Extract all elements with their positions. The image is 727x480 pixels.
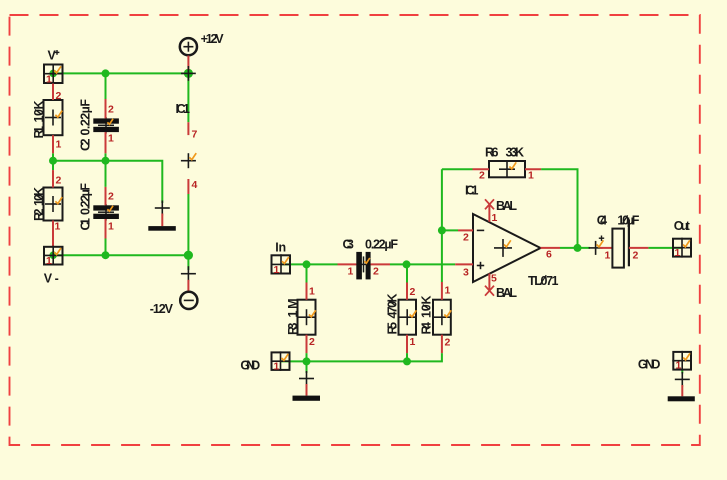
svg-text:GND: GND (638, 357, 661, 371)
svg-text:10K: 10K (32, 101, 46, 123)
wire GND right terminal stub (681, 370, 683, 374)
resistor R5 (399, 283, 417, 354)
svg-text:IC1: IC1 (465, 183, 479, 197)
ground symbol left (rail splitter) (148, 201, 176, 231)
svg-text:Out: Out (674, 219, 691, 233)
terminal GND left (271, 351, 291, 372)
op-amp pin 6 output stub (541, 247, 561, 249)
svg-text:4: 4 (192, 179, 198, 191)
wire R5 bottom to GND row (406, 353, 408, 361)
svg-text:C2: C2 (79, 138, 93, 151)
svg-text:R4: R4 (420, 322, 434, 335)
wire In to C3 (281, 263, 338, 265)
wire IC1 pin4 to row3 (187, 194, 189, 255)
wire R3 top (306, 264, 308, 282)
resistor R6 (473, 161, 542, 182)
svg-text:1: 1 (410, 336, 416, 348)
svg-text:2: 2 (479, 170, 485, 182)
wire mid rail row2 (53, 161, 162, 203)
svg-text:2: 2 (373, 266, 379, 278)
op-amp minus mark (477, 229, 484, 231)
wire supply column V+ to IC1 pin7 (187, 73, 189, 122)
svg-text:470K: 470K (386, 294, 400, 319)
svg-text:-12V: -12V (150, 302, 174, 316)
svg-text:2: 2 (56, 175, 62, 187)
wire V- rail row3 (53, 254, 188, 256)
resistor R4 (433, 282, 451, 353)
supply +12V (180, 38, 197, 81)
svg-text:GND: GND (240, 358, 260, 372)
svg-text:2: 2 (445, 337, 451, 349)
svg-text:2: 2 (56, 90, 62, 102)
terminal Out (672, 238, 692, 259)
svg-text:1: 1 (676, 360, 682, 372)
junction V+ terminal (49, 70, 57, 78)
svg-text:1: 1 (274, 264, 280, 276)
wire row3 to -12V supply (187, 255, 189, 270)
svg-text:1: 1 (445, 285, 451, 297)
junction row1 supply (184, 69, 193, 78)
wire GND row bottom (281, 353, 442, 361)
svg-text:1: 1 (274, 361, 280, 373)
svg-text:2: 2 (108, 104, 114, 116)
IC1 power pins (181, 122, 198, 194)
svg-text:R2: R2 (32, 208, 46, 221)
svg-text:V: V (48, 48, 57, 62)
junction V- terminal (49, 251, 57, 259)
svg-text:2: 2 (108, 191, 114, 203)
wire C2 bottom to row2 (105, 153, 107, 160)
svg-text:1: 1 (56, 139, 62, 151)
svg-text:1: 1 (46, 74, 52, 86)
capacitor C4 (589, 219, 649, 267)
resistor R3 (298, 283, 316, 354)
junction output node (574, 244, 582, 252)
op-amp pin 3 non-inverting stub (455, 263, 473, 265)
svg-text:0.22µF: 0.22µF (79, 99, 93, 136)
wire R6 right to output riser (541, 169, 577, 248)
svg-text:1: 1 (108, 133, 114, 145)
op-amp pin 5 BAL (488, 274, 490, 291)
op-amp IC1 TL071 (455, 199, 560, 295)
svg-text:BAL: BAL (496, 199, 517, 213)
svg-text:0.22µF: 0.22µF (365, 237, 398, 251)
resistor R1 (44, 84, 63, 154)
svg-text:R6: R6 (485, 145, 499, 159)
svg-text:IC1: IC1 (176, 102, 191, 116)
svg-text:1M: 1M (286, 299, 300, 318)
svg-text:C3: C3 (343, 237, 354, 251)
wire R1 bottom to row2 (52, 153, 54, 160)
svg-text:1: 1 (492, 212, 498, 224)
junction feedback node (438, 226, 446, 234)
resistor R2 (44, 170, 63, 247)
svg-text:R3: R3 (286, 322, 300, 335)
svg-text:1: 1 (46, 255, 52, 267)
wire opamp pin6 to output node (560, 247, 590, 249)
op-amp pin 2 inverting stub (458, 229, 473, 231)
svg-text:C4: C4 (597, 213, 607, 227)
capacitor C2 (93, 99, 119, 153)
capacitor C3 (338, 252, 391, 280)
svg-text:1: 1 (605, 250, 611, 262)
wire C3 to opamp pin3 (390, 263, 455, 265)
junction row2 colB (102, 157, 110, 165)
svg-text:C1: C1 (79, 218, 93, 231)
wire C2 top drop (105, 73, 107, 99)
svg-text:BAL: BAL (496, 286, 517, 300)
wire C1 bottom to row3 (105, 239, 107, 256)
terminal GND right (672, 351, 692, 372)
svg-text:2: 2 (410, 286, 416, 298)
svg-text:R5: R5 (386, 322, 400, 335)
wire R3 bottom to GND row (306, 353, 308, 361)
svg-text:3: 3 (463, 267, 469, 279)
wire C4 to Out terminal (648, 247, 682, 249)
op-amp origin cross (494, 247, 512, 249)
svg-text:1: 1 (55, 221, 61, 233)
svg-text:1: 1 (108, 221, 114, 233)
wire feedback node to R4 top (441, 169, 443, 282)
op-amp pin 1 BAL (488, 204, 490, 222)
wire R5 top (406, 264, 408, 282)
junction GND row R3 (303, 357, 311, 365)
svg-text:1: 1 (675, 247, 681, 259)
svg-text:V -: V - (44, 272, 59, 286)
terminal V- (43, 246, 64, 267)
svg-text:5: 5 (491, 273, 497, 285)
svg-text:33K: 33K (506, 145, 525, 159)
junction In/R3 node (303, 260, 311, 268)
svg-text:6: 6 (546, 249, 552, 261)
wire opamp pin2 from feedback node (442, 229, 458, 231)
junction row2 colA (49, 157, 57, 165)
svg-text:R1: R1 (32, 126, 46, 139)
junction C3/R5 node (403, 260, 411, 268)
junction row3 colB (102, 251, 110, 259)
svg-text:10µF: 10µF (617, 213, 639, 227)
svg-text:2: 2 (309, 336, 315, 348)
op-amp plus mark (477, 265, 484, 267)
svg-text:2: 2 (633, 250, 639, 262)
wire C1 top from row2 (105, 161, 107, 187)
terminal In (271, 254, 292, 276)
wire R2 top from row2 (52, 161, 54, 170)
svg-text:1: 1 (528, 170, 534, 182)
svg-text:1: 1 (348, 266, 354, 278)
wire V+ rail row1 (53, 72, 188, 74)
ground symbol right (668, 372, 695, 401)
svg-text:+12V: +12V (201, 32, 225, 46)
junction GND row R5 (403, 357, 411, 365)
svg-text:In: In (275, 241, 286, 255)
supply -12V (180, 266, 197, 309)
junction row1 colB (102, 69, 110, 77)
terminal V+ (43, 64, 64, 86)
svg-text:0.22µF: 0.22µF (79, 183, 93, 215)
wire R6 left to feedback node (442, 168, 473, 170)
svg-text:2: 2 (463, 232, 469, 244)
ground symbol mid (293, 371, 321, 401)
svg-text:1: 1 (309, 286, 315, 298)
wire GND row to ground symbol (306, 361, 308, 373)
junction row3 supply (184, 251, 193, 260)
capacitor C1 (93, 187, 119, 239)
svg-text:7: 7 (192, 129, 198, 141)
